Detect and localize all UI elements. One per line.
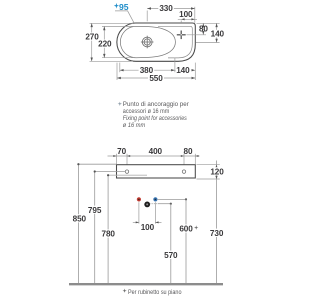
dimension 220 (left, bowl) (102, 26, 134, 57)
svg-text:140: 140 (176, 66, 190, 75)
dimension 120 (basin front height) (197, 165, 220, 179)
dimension line 70/400/80 (front top) (108, 154, 200, 170)
basin deck rim line (top view, right portion) (158, 26, 192, 58)
dimension 80 (top view right) (187, 23, 220, 35)
svg-text:Fixing point for accessories: Fixing point for accessories (123, 115, 188, 122)
basin outer outline (top view) (117, 23, 195, 61)
blue label *95 with leader (114, 2, 134, 23)
dimension 140 (top view right) (196, 23, 220, 42)
dimension 330 (top) (147, 7, 195, 23)
dimension 140 (bottom of top view) (175, 69, 179, 71)
dimension 100 (top) (178, 19, 197, 23)
svg-text:550: 550 (149, 74, 163, 83)
basin front rectangle (117, 165, 196, 178)
svg-text:780: 780 (102, 230, 116, 239)
dimension 550 (bottom of top view) (117, 63, 195, 80)
floor line (69, 283, 223, 285)
cold water supply dot (blue) (153, 197, 157, 201)
dimension 600 (supply height) (185, 199, 187, 283)
svg-text:600: 600 (179, 225, 193, 234)
dimension 795 (anchor height) (95, 172, 126, 284)
leader from blue dot to 600 line (158, 198, 186, 200)
svg-text:120: 120 (210, 167, 224, 176)
svg-text:570: 570 (164, 251, 178, 260)
bottom footnote star (123, 289, 127, 293)
dimension 100 (supply spacing) (133, 202, 162, 223)
svg-text:accessori ø 16 mm: accessori ø 16 mm (123, 108, 170, 115)
svg-text:730: 730 (210, 229, 224, 238)
svg-text:ø 16 mm: ø 16 mm (123, 122, 146, 129)
dimension 380 (bottom of top view) (120, 58, 175, 73)
svg-text:80: 80 (184, 147, 193, 156)
svg-text:850: 850 (73, 214, 87, 223)
svg-text:95: 95 (119, 2, 129, 12)
accessory fixing point cross (top view right deck) (177, 31, 186, 40)
svg-text:Per rubinetto su piano: Per rubinetto su piano (128, 289, 182, 296)
svg-text:80: 80 (199, 24, 208, 33)
svg-text:Punto di ancoraggio per: Punto di ancoraggio per (123, 101, 189, 108)
footnote star (118, 102, 122, 106)
svg-text:100: 100 (141, 223, 155, 232)
leader from drain dot to 570 line (151, 203, 159, 205)
dimension 780 (hidden bottom height) (108, 174, 147, 176)
svg-text:330: 330 (159, 4, 173, 13)
dimension 850 (wall height) (78, 164, 116, 283)
svg-text:400: 400 (149, 147, 163, 156)
dimension 570 (drain height) (170, 204, 172, 283)
svg-text:100: 100 (179, 10, 193, 19)
hot water supply dot (red) (137, 197, 141, 201)
anchor hole left (front) (125, 170, 128, 173)
dimension 730 line with 120 (216, 161, 218, 284)
drain symbol (top view) (141, 36, 154, 49)
drain dot (black) (144, 202, 150, 208)
svg-text:70: 70 (117, 147, 126, 156)
svg-text:795: 795 (88, 206, 102, 215)
anchor hole right (front) (182, 170, 185, 173)
svg-text:220: 220 (98, 40, 112, 49)
bowl outline (top view) (120, 26, 175, 57)
svg-text:140: 140 (211, 30, 225, 39)
dimension 270 (left) (90, 23, 134, 61)
